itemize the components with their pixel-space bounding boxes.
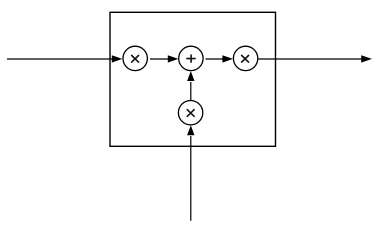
multiplier M1 times symbol bbox=[131, 55, 139, 63]
wire: bottom input vertical line bbox=[190, 136, 192, 221]
arrowhead into adder S1 bbox=[168, 55, 179, 62]
arrowhead into multiplier M1 bbox=[112, 55, 123, 62]
arrowhead output right bbox=[361, 55, 372, 62]
wire: input line from left into box bbox=[7, 58, 113, 60]
adder S1 plus symbol bbox=[186, 55, 195, 63]
arrowhead into multiplier M3 from below bbox=[187, 125, 194, 135]
multiplier M2 times symbol bbox=[241, 55, 249, 63]
wire: S1 to multiplier M2 bbox=[206, 58, 225, 60]
multiplier M2 circle bbox=[233, 46, 257, 70]
multiplier M3 circle bbox=[178, 101, 202, 125]
wire: M3 up to adder S1 bbox=[190, 82, 192, 100]
block boundary rectangle bbox=[110, 12, 276, 146]
wire: output line from M2 out of box to right bbox=[258, 58, 362, 60]
multiplier M3 times symbol bbox=[187, 109, 195, 117]
adder S1 circle bbox=[179, 46, 203, 70]
arrowhead into adder S1 from below bbox=[187, 71, 194, 81]
multiplier M1 circle bbox=[123, 46, 147, 70]
arrowhead into multiplier M2 bbox=[222, 55, 233, 62]
wire: M1 to adder S1 bbox=[150, 58, 169, 60]
